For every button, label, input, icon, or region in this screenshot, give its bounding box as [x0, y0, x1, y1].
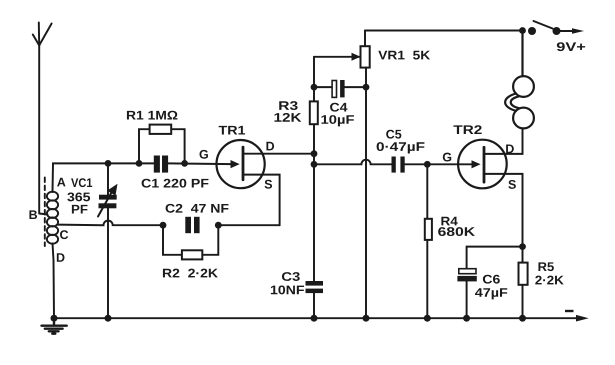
wire C5 coupling (hop over VR1 line)	[314, 160, 392, 165]
wire coil top lead to tank rail	[53, 163, 154, 192]
label C3 value	[271, 286, 278, 295]
ground rail junction dots	[51, 315, 527, 322]
label C3	[282, 272, 292, 281]
ferrite rod (dashed)	[44, 178, 46, 247]
variable capacitor VC1	[98, 163, 118, 318]
node C4 left junction	[311, 84, 318, 91]
wire C3 to ground	[313, 293, 315, 318]
node C2 left junction	[160, 222, 167, 229]
label R4 value	[438, 227, 446, 236]
label R1 value	[127, 111, 136, 120]
label R3	[279, 101, 289, 110]
earphone	[505, 31, 534, 129]
capacitor C2	[185, 217, 199, 233]
resistor R4	[425, 164, 432, 318]
capacitor C3	[306, 281, 324, 293]
node VC1 top junction	[105, 160, 112, 167]
label R5 value	[535, 276, 541, 285]
wire TR1 source to C2 network	[218, 224, 279, 226]
label R4	[441, 217, 450, 226]
node B label	[29, 210, 37, 219]
capacitor C4	[314, 80, 366, 97]
capacitor C1	[154, 156, 168, 173]
wire drain node vertical (R3 top to C3 bottom)	[313, 57, 315, 281]
label R3 value	[274, 113, 281, 122]
node C4 right junction	[363, 84, 370, 91]
wire VR1 bottom to ground rail	[365, 68, 367, 319]
capacitor C5	[392, 157, 405, 173]
transistor TR1	[217, 140, 315, 225]
node C2 right junction	[215, 222, 222, 229]
switch S1	[528, 21, 584, 35]
label R5	[538, 262, 546, 271]
wire tank rail C1 right to TR1 gate	[168, 162, 232, 165]
resistor R5	[519, 263, 528, 319]
node TR2 gate / R4 junction	[424, 161, 431, 168]
wire C2 left to coil tap C (hop over VC1 line)	[58, 221, 164, 226]
node R1/C1 left junction	[136, 160, 143, 167]
label C4 value	[321, 115, 328, 124]
antenna	[33, 23, 52, 214]
label TR2	[453, 125, 462, 134]
pin G TR1	[200, 150, 208, 159]
label C1 value	[142, 179, 151, 188]
wire antenna to coil tap B	[39, 214, 47, 215]
node R1/C1 right junction	[181, 160, 188, 167]
resistor R3	[310, 101, 318, 124]
node C5 wire junction	[311, 161, 318, 168]
resistor R1	[139, 125, 185, 164]
label C2 value	[166, 204, 175, 213]
transistor TR2	[458, 129, 522, 263]
label 9V+	[557, 42, 565, 51]
resistor R2	[163, 225, 218, 259]
node supply/earphone junction	[519, 27, 526, 34]
label VC1	[71, 178, 78, 187]
node A label	[57, 178, 65, 187]
label C5 value	[377, 142, 384, 151]
wire C5 to TR2 gate	[405, 163, 472, 165]
label C6 value	[475, 288, 483, 297]
node C label	[60, 230, 68, 239]
pin G TR2	[443, 153, 451, 162]
wire C6 top	[467, 247, 523, 269]
ground rail	[54, 317, 577, 319]
label C4	[330, 103, 339, 112]
top supply rail	[365, 30, 523, 32]
capacitor C6	[457, 269, 476, 319]
label VR1 value	[378, 51, 387, 60]
battery minus sign	[565, 310, 574, 312]
label R2 value	[163, 269, 172, 278]
label C5	[386, 130, 394, 139]
pin D TR1	[266, 142, 274, 151]
ground symbol	[42, 318, 67, 334]
node TR2 source / R5 / C6 junction	[519, 243, 526, 250]
pin S TR1	[265, 180, 272, 189]
label VC1 unit	[72, 205, 80, 214]
label VC1 value	[67, 192, 74, 201]
pin D TR2	[506, 144, 514, 153]
pin S TR2	[508, 180, 515, 189]
label TR1	[219, 126, 227, 135]
node D label	[57, 253, 65, 262]
node TR1 drain junction	[311, 150, 318, 157]
potentiometer VR1	[314, 31, 370, 68]
label C6	[483, 275, 492, 284]
coil L1	[47, 192, 58, 244]
wire coil bottom lead to ground rail	[53, 244, 55, 319]
